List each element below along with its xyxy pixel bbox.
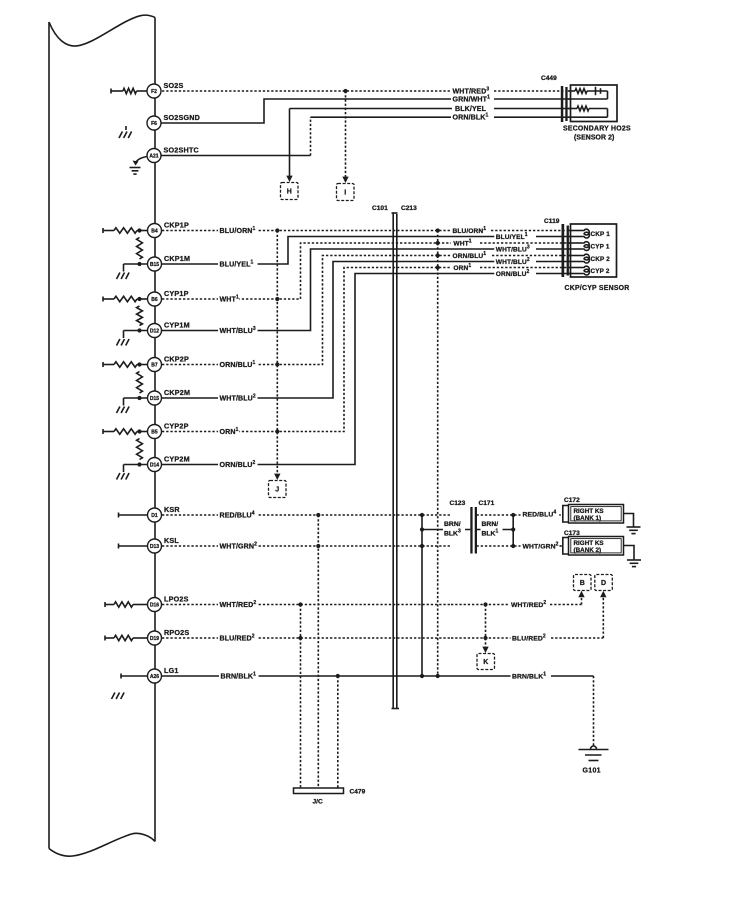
svg-text:CYP2M: CYP2M (164, 455, 190, 464)
wire BLU/YEL1 (CKP1M) (162, 237, 571, 265)
right knock sensor bank1 (563, 505, 624, 524)
label GRN/WHT1 (451, 95, 491, 104)
svg-text:BLU/RED2: BLU/RED2 (512, 634, 546, 643)
svg-text:WHT/GRN2: WHT/GRN2 (220, 542, 258, 551)
wire and ground at pin D15 (CKP2M) (117, 396, 149, 413)
junction vertical BRN/BLK to J/C (337, 676, 339, 788)
sensor coil CYP 1 (569, 242, 610, 251)
resistor at pin D19 (105, 635, 148, 640)
svg-text:BRN/BLK1: BRN/BLK1 (512, 672, 546, 681)
svg-text:ORN/BLU2: ORN/BLU2 (496, 269, 530, 278)
svg-text:SO2S: SO2S (164, 81, 184, 90)
svg-text:J: J (275, 487, 279, 494)
label BLU/RED2 right (511, 634, 549, 643)
resistor at pin F2 (111, 88, 148, 93)
box J destination connector (269, 481, 287, 498)
svg-text:LG1: LG1 (164, 666, 179, 675)
svg-text:RIGHT KS: RIGHT KS (574, 508, 604, 515)
svg-text:D: D (601, 580, 606, 587)
sensor inner loop top (568, 91, 608, 99)
label WHT/BLU2 at connector (494, 257, 531, 266)
wire ORN1 (CYP2P) dashed (162, 265, 571, 433)
label WHT/GRN2 at sensor (521, 542, 559, 551)
svg-text:C479: C479 (350, 789, 366, 796)
label WHT/RED2 (218, 600, 258, 609)
connector C119 bars (562, 224, 569, 277)
svg-text:WHT/RED3: WHT/RED3 (453, 87, 490, 96)
secondary HO2S caption (563, 126, 631, 142)
svg-text:WHT/GRN2: WHT/GRN2 (523, 542, 559, 551)
label WHT/BLU3 (218, 326, 258, 335)
svg-text:ORN/BLU1: ORN/BLU1 (453, 251, 487, 260)
svg-text:CKP2M: CKP2M (164, 388, 190, 397)
connector C172 label (564, 497, 580, 504)
label BLK/YEL (454, 104, 489, 113)
wire ORN/BLU2 (CYP2M) (162, 274, 571, 465)
box D destination connector (595, 575, 613, 591)
pin B15 CKP1M (148, 254, 191, 271)
wire BRN/BLK shield between C123 and C171 (422, 529, 513, 531)
riser BLK/YEL down to box H with arrow (286, 109, 292, 183)
svg-text:BLK/YEL: BLK/YEL (455, 105, 487, 113)
svg-text:RED/BLU4: RED/BLU4 (523, 510, 557, 519)
label ORN/BLU2 (218, 460, 258, 469)
label WHT/RED3 (451, 87, 491, 96)
label ORN1 at connector (452, 263, 472, 272)
label RED/BLU4 (218, 511, 258, 520)
svg-text:C213: C213 (401, 205, 417, 212)
label BLU/ORN1 (218, 226, 258, 235)
svg-text:BRN/: BRN/ (444, 521, 461, 528)
svg-text:C172: C172 (564, 497, 580, 504)
pin D13 KSL (148, 536, 180, 553)
svg-text:D19: D19 (150, 636, 159, 642)
pin A26 LG1 (148, 666, 179, 683)
resistor at pin D16 (105, 602, 148, 607)
ground below F6 (chassis) (119, 126, 132, 138)
wire and ground at pin D14 (CYP2M) (117, 462, 149, 479)
wire ORN/BLU1 (CKP2P) dashed (162, 253, 571, 366)
pin B7 CKP2P (148, 355, 189, 372)
svg-text:F6: F6 (151, 121, 157, 127)
svg-text:RED/BLU4: RED/BLU4 (220, 511, 255, 520)
pin B6 CYP1P (148, 289, 189, 306)
ECM boundary (torn box edges) (49, 15, 155, 856)
pin F6 SO2SGND (147, 113, 200, 130)
pin D15 CKP2M (148, 388, 191, 405)
label BLU/YEL1 (218, 260, 258, 269)
svg-text:CKP2P: CKP2P (164, 355, 189, 364)
svg-text:D1: D1 (151, 513, 158, 519)
label WHT1 at connector (452, 239, 472, 248)
connector C173 label (564, 530, 580, 537)
svg-text:D13: D13 (150, 544, 159, 550)
pin D1 KSR (148, 505, 181, 522)
svg-text:WHT/BLU3: WHT/BLU3 (496, 245, 530, 254)
wire and ground at pin B15 (CKP1M) (117, 262, 149, 279)
wire RED/BLU4 (KSR) dashed (162, 513, 563, 517)
resistor network at pin B5 (CYP2P) (103, 429, 148, 434)
resistor network at pin B4 (CKP1P) (103, 228, 148, 233)
svg-text:BLU/YEL1: BLU/YEL1 (496, 232, 528, 241)
svg-text:B5: B5 (151, 429, 158, 435)
secondary HO2S sensor box (571, 85, 618, 122)
svg-text:D16: D16 (150, 602, 159, 608)
wire BLK/YEL row (290, 108, 571, 110)
svg-text:(BANK 2): (BANK 2) (574, 547, 602, 554)
svg-text:GRN/WHT1: GRN/WHT1 (453, 95, 491, 104)
chassis ground below A26 (112, 693, 125, 700)
pin B4 CKP1P (148, 221, 189, 238)
label ORN/BLU2 at connector (494, 269, 531, 278)
pin F2 SO2S (147, 81, 183, 98)
sensor inner loop bottom (568, 109, 608, 118)
label ORN/BLK1 (451, 113, 491, 122)
svg-text:(BANK 1): (BANK 1) (574, 515, 602, 522)
sensor element (zigzag + cell) row1 (568, 87, 608, 95)
wire WHT/BLU2 (CKP2M) (162, 262, 571, 399)
wire WHT/GRN2 (KSL) dashed (162, 544, 563, 548)
label BRN/BLK1 (219, 672, 259, 681)
connector C123/C171 bars (470, 507, 477, 554)
svg-text:BRN/BLK1: BRN/BLK1 (221, 672, 257, 681)
svg-text:C101: C101 (372, 205, 388, 212)
svg-text:C119: C119 (544, 218, 560, 225)
heater resistor row3 (568, 106, 608, 111)
right knock sensor bank2 (563, 537, 624, 556)
connector C123/C171 labels (450, 500, 495, 507)
label BRN/BLK3 left of connector (443, 518, 465, 538)
junction connector C479 (J/C) (294, 788, 366, 806)
label WHT/GRN2 (218, 542, 258, 551)
svg-text:CKP 1: CKP 1 (591, 231, 611, 238)
pin D1 KSR wire (119, 513, 149, 518)
dashed junction vertical to BRN/BLK (436, 231, 440, 679)
svg-text:K: K (483, 659, 488, 666)
ground G101 (579, 746, 609, 775)
svg-text:RPO2S: RPO2S (164, 628, 189, 637)
ECM pin bus line (154, 18, 156, 842)
drop to box K dashed (482, 605, 488, 654)
label WHT/BLU3 at connector (494, 245, 531, 254)
wire WHT/RED2 (LPO2S) dashed (162, 602, 582, 606)
svg-text:B4: B4 (151, 228, 158, 234)
svg-text:CYP2P: CYP2P (164, 422, 189, 431)
CKP/CYP sensor box (571, 224, 617, 277)
wire BRN/BLK1 to G101 (593, 676, 595, 746)
svg-text:G101: G101 (583, 768, 601, 775)
bias resistor B6-D12 (137, 306, 143, 326)
dashed drop from SO2S junction to box I (342, 91, 348, 183)
connector C101/C213 labels (372, 205, 417, 212)
svg-text:CYP1P: CYP1P (164, 289, 189, 298)
svg-text:BLU/ORN1: BLU/ORN1 (220, 226, 256, 235)
wire BRN/BLK1 (LG1) (162, 674, 594, 678)
connector C119 label (544, 218, 560, 225)
wire SO2S (WHT/RED) dashed from pin F2 to sensor (162, 89, 571, 93)
svg-text:C123: C123 (450, 500, 466, 507)
svg-text:BRN/: BRN/ (482, 521, 499, 528)
svg-text:A21: A21 (149, 153, 158, 159)
label WHT/BLU2 (218, 394, 258, 403)
svg-text:KSR: KSR (164, 505, 180, 514)
svg-text:D15: D15 (150, 396, 159, 402)
box I destination connector (337, 184, 355, 201)
svg-text:CYP1M: CYP1M (164, 321, 190, 330)
shield link vertical left (420, 515, 424, 678)
label WHT1 (218, 295, 239, 304)
ground of bank2 sensor (624, 546, 642, 567)
svg-text:B: B (580, 580, 585, 587)
svg-text:SO2SGND: SO2SGND (164, 113, 201, 122)
svg-text:KSL: KSL (164, 536, 179, 545)
svg-text:WHT/BLU3: WHT/BLU3 (220, 326, 256, 335)
svg-text:C449: C449 (541, 75, 557, 82)
svg-text:C171: C171 (479, 500, 495, 507)
connector C101/C213 bars (392, 213, 400, 709)
wire SO2SHTC from pin A21 to ORN/BLK row (162, 117, 571, 155)
svg-text:WHT/RED2: WHT/RED2 (511, 600, 546, 609)
svg-text:LPO2S: LPO2S (164, 595, 189, 604)
svg-text:CYP 1: CYP 1 (591, 243, 610, 250)
svg-text:B6: B6 (151, 297, 158, 303)
svg-text:BLU/RED2: BLU/RED2 (220, 634, 255, 643)
svg-text:RIGHT KS: RIGHT KS (574, 540, 604, 547)
sensor coil CKP 1 (569, 229, 610, 238)
svg-text:WHT/RED2: WHT/RED2 (220, 600, 257, 609)
bias resistor B7-D15 (137, 372, 143, 394)
svg-text:CYP 2: CYP 2 (591, 268, 610, 275)
connector C449 bars (561, 86, 568, 122)
label BLU/ORN1 at connector (451, 226, 488, 235)
label BLU/YEL1 at connector (494, 232, 531, 241)
label ORN/BLU1 (218, 360, 258, 369)
svg-text:D12: D12 (150, 328, 159, 334)
ground of bank1 sensor (624, 514, 641, 534)
svg-text:ORN/BLU1: ORN/BLU1 (220, 360, 256, 369)
svg-text:D14: D14 (150, 462, 159, 468)
wire BLU/ORN1 (CKP1P) dashed (162, 228, 571, 232)
svg-text:J/C: J/C (313, 799, 323, 806)
svg-text:BLU/ORN1: BLU/ORN1 (453, 226, 487, 235)
svg-text:H: H (287, 189, 292, 196)
label RED/BLU4 at sensor (521, 510, 559, 519)
CKP/CYP sensor caption (565, 285, 630, 292)
riser to box D dashed (600, 591, 606, 638)
svg-text:ORN/BLU2: ORN/BLU2 (220, 460, 256, 469)
svg-text:I: I (344, 190, 346, 197)
svg-text:SO2SHTC: SO2SHTC (164, 146, 199, 155)
resistor network at pin B6 (CYP1P) (103, 296, 148, 301)
svg-text:A26: A26 (150, 674, 159, 680)
connector C449 label (541, 75, 557, 82)
svg-text:B7: B7 (151, 362, 158, 368)
bias resistor B5-D14 (137, 439, 143, 460)
wire and ground at pin D12 (CYP1M) (117, 328, 149, 345)
junction vertical KSR-KSL to J/C (317, 515, 319, 788)
pin B5 CYP2P (148, 422, 189, 439)
wire WHT/BLU3 (CYP1M) (162, 249, 571, 331)
pin D16 LPO2S (148, 595, 189, 612)
svg-text:CKP1M: CKP1M (164, 254, 190, 263)
svg-text:F2: F2 (151, 89, 157, 95)
sensor coil CKP 2 (569, 254, 610, 263)
label ORN1 (218, 427, 239, 436)
ground at pin A21 (130, 157, 148, 175)
pin D12 CYP1M (148, 321, 190, 338)
shield drain to box J dashed (274, 231, 280, 481)
svg-text:ORN/BLK1: ORN/BLK1 (453, 113, 489, 122)
junction vertical LPO2S-RPO2S to J/C (300, 605, 302, 789)
wire BLU/RED2 (RPO2S) dashed (162, 636, 603, 640)
box H destination connector (281, 183, 299, 200)
pin A21 SO2SHTC (147, 146, 199, 163)
pin D13 KSL wire (119, 544, 149, 549)
box B destination connector (574, 575, 592, 591)
svg-text:WHT/BLU2: WHT/BLU2 (496, 257, 530, 266)
svg-text:CKP 2: CKP 2 (591, 256, 611, 263)
svg-text:B15: B15 (150, 262, 159, 268)
label ORN/BLU1 at connector (451, 251, 488, 260)
sensor coil CYP 2 (569, 266, 610, 275)
svg-text:CKP1P: CKP1P (164, 221, 189, 230)
resistor network at pin B7 (CKP2P) (103, 362, 148, 367)
wire WHT1 (CYP1P) dashed (162, 241, 571, 301)
label BLU/RED2 (218, 634, 258, 643)
label WHT/RED2 right (510, 600, 548, 609)
wire GRN/WHT from pin F6 (SO2SGND) (162, 99, 571, 123)
shield link vertical right (511, 515, 515, 546)
bias resistor B4-B15 (137, 238, 143, 260)
label BRN/BLK1 right of connector (481, 518, 503, 538)
box K destination connector (477, 654, 495, 670)
label BRN/BLK1 right (511, 672, 549, 681)
svg-text:BLU/YEL1: BLU/YEL1 (220, 260, 254, 269)
pin D19 RPO2S (148, 628, 190, 645)
svg-text:WHT/BLU2: WHT/BLU2 (220, 394, 256, 403)
svg-text:(SENSOR 2): (SENSOR 2) (574, 135, 614, 142)
riser to box B dashed (578, 591, 584, 605)
pin A26 LG1 wire (121, 674, 148, 679)
svg-text:CKP/CYP SENSOR: CKP/CYP SENSOR (565, 285, 630, 292)
svg-text:SECONDARY HO2S: SECONDARY HO2S (563, 126, 631, 133)
pin D14 CYP2M (148, 455, 190, 472)
